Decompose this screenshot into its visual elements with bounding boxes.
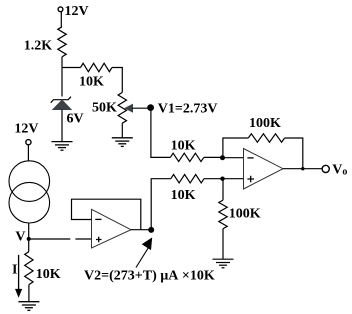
zener diode cathode bar	[51, 97, 71, 103]
resistor 100K feedback	[248, 134, 284, 142]
wire node A right	[62, 67, 81, 69]
U2 minus sign	[247, 157, 253, 159]
ground bottom left	[18, 302, 39, 311]
wire 10K to 50K top	[112, 68, 122, 93]
svg-text:100K: 100K	[249, 116, 281, 131]
svg-text:100K: 100K	[229, 207, 261, 222]
wire node B to op-amp minus	[223, 157, 244, 159]
U1 plus sign	[96, 237, 102, 243]
svg-text:50K: 50K	[92, 100, 117, 115]
wire node D to op-amp plus	[223, 178, 244, 180]
U1 minus sign	[95, 218, 101, 220]
current arrow I	[18, 255, 20, 290]
wire 50K to ground	[121, 123, 123, 138]
op-amp U1 buffer	[92, 209, 132, 248]
svg-text:V: V	[15, 229, 25, 244]
svg-text:10K: 10K	[171, 188, 196, 203]
svg-text:10K: 10K	[79, 74, 104, 89]
svg-text:V2=(273+T) µA ×10K: V2=(273+T) µA ×10K	[84, 269, 215, 284]
output node junction dot	[301, 167, 304, 170]
svg-text:10K: 10K	[171, 139, 196, 154]
wire node C up from buffer output	[151, 179, 171, 230]
node E junction dot	[148, 227, 154, 233]
wiper arrow of 50K	[124, 104, 133, 113]
terminal 12V left	[26, 140, 31, 145]
current source circle 1	[9, 161, 50, 202]
resistor 10K a (to inverting input)	[170, 153, 203, 161]
wire 10K b to node D	[204, 178, 223, 180]
svg-text:V1=2.73V: V1=2.73V	[158, 102, 218, 117]
wire 10K a to node B	[204, 156, 223, 158]
node B junction dot	[220, 155, 225, 160]
resistor R 1.2K	[58, 27, 66, 57]
ground under 100K	[213, 259, 234, 268]
op-amp U2	[244, 149, 284, 190]
wire node V to buffer plus	[29, 238, 92, 240]
node V1 junction dot	[147, 104, 154, 111]
wire terminal to current source	[27, 145, 29, 161]
resistor R 10K horizontal	[81, 63, 112, 71]
resistor 10K bottom left	[25, 252, 33, 285]
wire wiper to node V1	[132, 107, 151, 109]
resistor 10K b (to non-inverting input)	[171, 175, 204, 183]
ground under 50K	[112, 138, 133, 147]
U1 feedback wire	[72, 199, 141, 230]
terminal Vo	[322, 165, 329, 172]
wire 100K to ground	[222, 229, 224, 260]
wire node B up to feedback	[223, 138, 248, 158]
wire V1 down to 10K a	[151, 108, 170, 158]
ground under zener	[52, 142, 73, 151]
wire 1.2K to node A	[61, 57, 63, 68]
wire current source to node V	[28, 223, 30, 252]
potentiometer 50K	[118, 92, 126, 123]
current source circle 2	[9, 182, 50, 223]
wire U2 output	[283, 168, 322, 170]
terminal +12V top	[58, 7, 63, 12]
svg-text:Vo: Vo	[332, 163, 347, 178]
wire feedback to output node	[285, 138, 303, 169]
svg-text:1.2K: 1.2K	[24, 39, 53, 54]
svg-text:12V: 12V	[14, 122, 38, 137]
svg-text:10K: 10K	[36, 267, 61, 282]
node V junction dot	[27, 237, 31, 241]
annotation arrow to node E	[136, 248, 148, 268]
svg-text:6V: 6V	[67, 112, 84, 127]
zener diode D1 triangle	[53, 100, 72, 110]
wire 12V to R 1.2K	[60, 12, 62, 27]
svg-text:I: I	[12, 262, 17, 277]
wire 10K to ground bottom left	[28, 285, 30, 302]
node D junction dot	[220, 177, 224, 181]
resistor 100K bottom	[219, 200, 227, 229]
U2 plus sign	[247, 176, 254, 183]
svg-text:12V: 12V	[65, 4, 89, 19]
node D resistor 100K to ground	[222, 179, 224, 200]
node A wire to zener	[61, 68, 63, 97]
wire U1 output	[131, 229, 151, 231]
wire zener to ground	[61, 110, 63, 142]
